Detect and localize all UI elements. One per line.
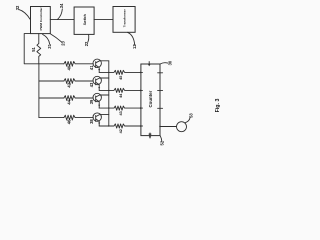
- node junction 3: [108, 107, 109, 108]
- collector bus: [108, 61, 110, 126]
- leader 23: [51, 34, 62, 42]
- transistor Q43: [93, 76, 109, 90]
- resistor 44 collector: [99, 88, 142, 92]
- counter output ticks: [158, 72, 163, 74]
- svg-text:39: 39: [89, 99, 94, 104]
- leader 53: [185, 118, 190, 123]
- transistor Q39: [93, 93, 109, 108]
- wire PWM left feedback: [24, 34, 39, 64]
- svg-text:PWM Controller: PWM Controller: [39, 7, 43, 31]
- wire switch to transformer: [94, 19, 113, 21]
- svg-text:41: 41: [89, 65, 94, 70]
- svg-text:Fig. 3: Fig. 3: [215, 99, 221, 113]
- leader 30: [160, 63, 167, 64]
- transistor Q38: [93, 113, 109, 126]
- leader 32: [19, 10, 30, 20]
- left bus: [38, 64, 40, 118]
- svg-text:43: 43: [119, 111, 123, 115]
- svg-text:42: 42: [67, 82, 72, 87]
- resistor 43 collector: [99, 106, 142, 110]
- svg-text:52: 52: [159, 140, 164, 145]
- row 4 wire: [39, 117, 64, 119]
- wire 52 stub: [160, 136, 162, 142]
- node junction 2: [108, 90, 109, 91]
- resistor 42 collector: [99, 124, 142, 128]
- resistor 46: [64, 115, 93, 120]
- PWM controller box 32: [31, 7, 51, 34]
- svg-text:Counter: Counter: [148, 90, 153, 107]
- svg-text:43: 43: [89, 82, 94, 87]
- resistor 44: [64, 96, 93, 101]
- node junction 4: [108, 125, 109, 126]
- counter box: [141, 64, 160, 136]
- leader 12: [127, 32, 134, 45]
- transformer box 12: [113, 7, 135, 33]
- row 1 wire: [39, 63, 64, 65]
- counter bottom tick: [149, 133, 151, 138]
- node counter input 4: [140, 125, 142, 127]
- resistor 40: [64, 61, 93, 66]
- svg-text:51: 51: [31, 46, 36, 51]
- leader 31: [43, 34, 50, 44]
- resistor R51: [37, 34, 41, 64]
- svg-text:40: 40: [67, 65, 72, 70]
- node lamp junction: [159, 126, 161, 128]
- row 2 wire: [39, 80, 64, 82]
- svg-text:Switch: Switch: [83, 14, 87, 25]
- wire PWM to switch 34: [50, 19, 74, 21]
- counter top tick: [148, 62, 150, 65]
- node counter input 2: [140, 90, 142, 92]
- node counter input 1: [140, 72, 142, 74]
- svg-text:Transformer: Transformer: [123, 8, 127, 27]
- svg-text:46: 46: [67, 119, 72, 124]
- resistor 45 collector: [99, 70, 142, 74]
- svg-text:34: 34: [59, 3, 64, 8]
- transistor Q41: [93, 59, 109, 72]
- node counter input 3: [140, 107, 142, 109]
- switch box 22: [74, 7, 94, 34]
- leader 22: [87, 35, 90, 43]
- svg-text:38: 38: [89, 119, 94, 124]
- svg-text:42: 42: [119, 129, 123, 133]
- svg-text:45: 45: [119, 76, 123, 80]
- wire to lamp: [160, 126, 177, 128]
- node junction 1: [108, 72, 109, 73]
- leader 34: [58, 9, 63, 19]
- resistor 42: [64, 79, 93, 84]
- svg-text:53: 53: [188, 113, 193, 118]
- lamp 53: [177, 122, 187, 132]
- row 3 wire: [39, 97, 64, 99]
- svg-text:44: 44: [67, 99, 72, 104]
